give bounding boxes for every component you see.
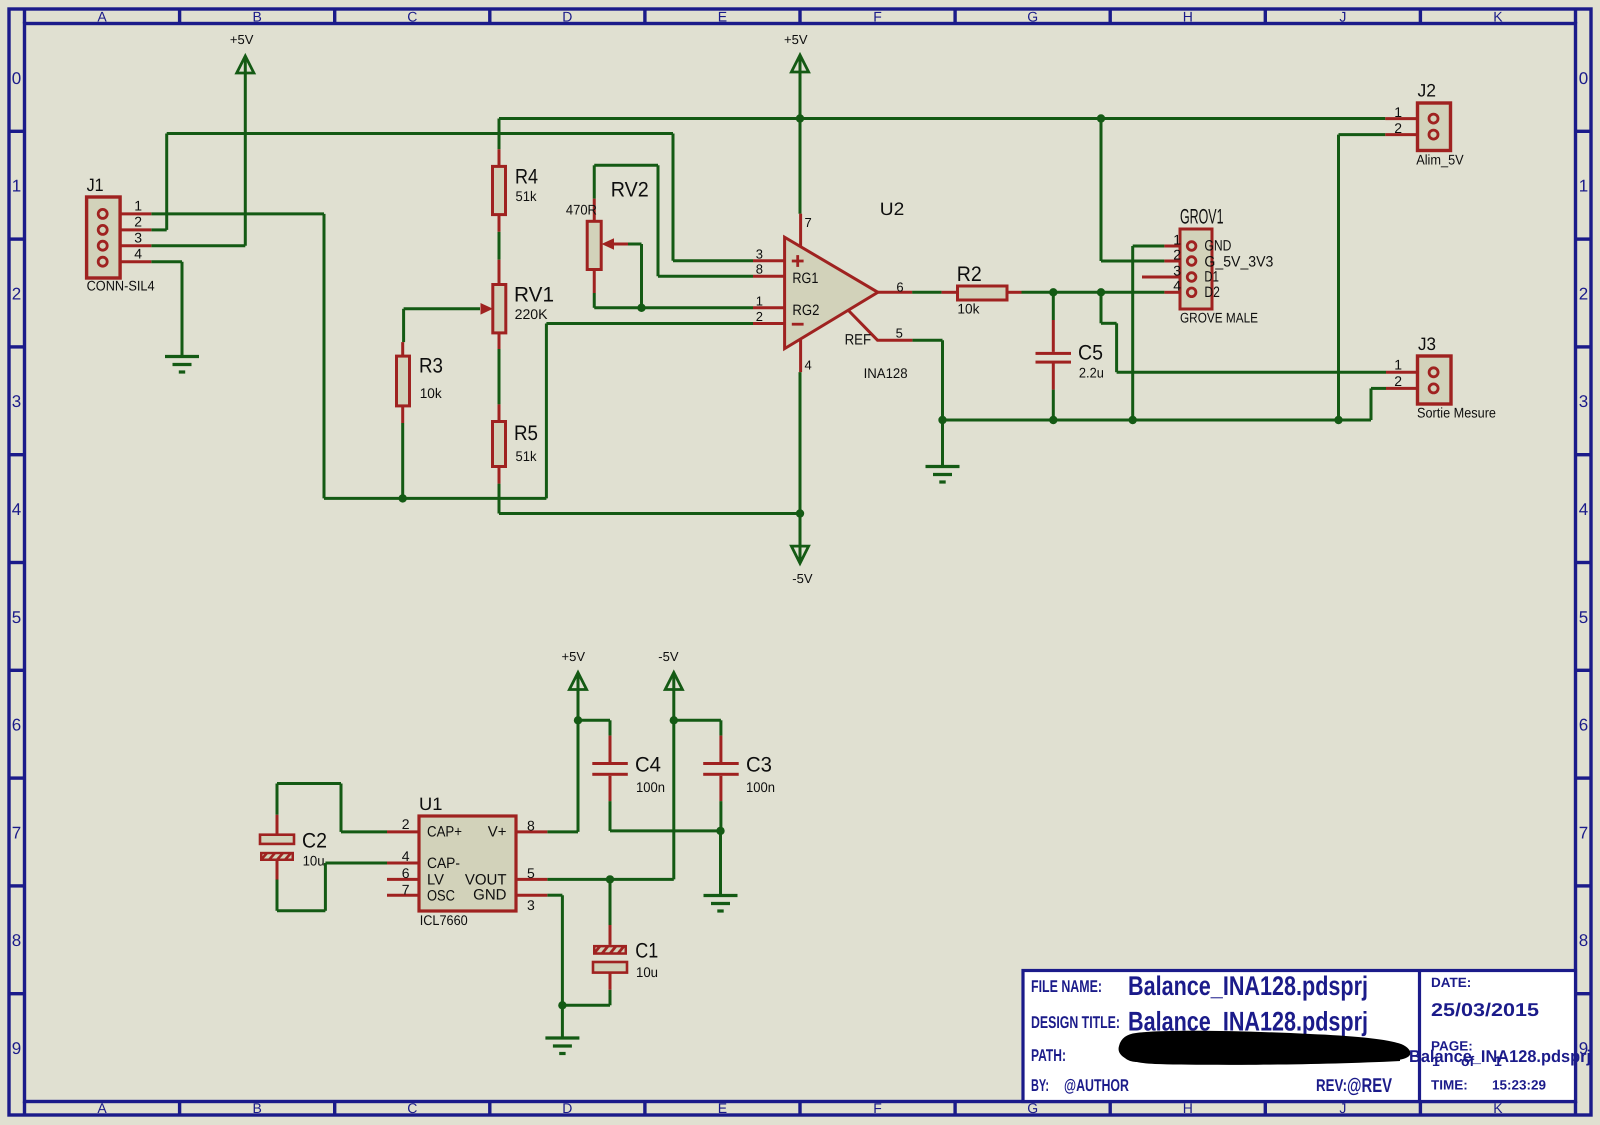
svg-text:C2: C2 bbox=[302, 830, 327, 853]
svg-text:3: 3 bbox=[527, 897, 535, 913]
svg-text:D: D bbox=[562, 9, 572, 25]
svg-text:2: 2 bbox=[134, 214, 142, 230]
svg-text:9: 9 bbox=[12, 1039, 21, 1058]
svg-text:470R: 470R bbox=[566, 202, 597, 218]
svg-text:RV1: RV1 bbox=[514, 284, 554, 307]
svg-text:DESIGN TITLE:: DESIGN TITLE: bbox=[1031, 1013, 1120, 1032]
svg-text:C3: C3 bbox=[746, 754, 772, 777]
svg-text:R4: R4 bbox=[515, 166, 538, 189]
svg-text:220K: 220K bbox=[515, 306, 549, 322]
svg-text:J2: J2 bbox=[1418, 81, 1437, 101]
svg-text:PATH:: PATH: bbox=[1031, 1046, 1066, 1065]
svg-text:3: 3 bbox=[1579, 392, 1588, 411]
svg-text:15:23:29: 15:23:29 bbox=[1492, 1078, 1546, 1093]
svg-text:DATE:: DATE: bbox=[1431, 975, 1471, 990]
svg-text:GND: GND bbox=[473, 887, 507, 904]
svg-text:51k: 51k bbox=[516, 448, 538, 464]
svg-text:6: 6 bbox=[12, 716, 21, 735]
svg-text:4: 4 bbox=[805, 358, 812, 373]
svg-text:7: 7 bbox=[12, 823, 21, 842]
svg-text:3: 3 bbox=[1173, 263, 1181, 279]
svg-text:8: 8 bbox=[527, 818, 535, 834]
svg-text:2.2u: 2.2u bbox=[1079, 365, 1104, 381]
svg-text:5: 5 bbox=[12, 608, 21, 627]
svg-text:FILE NAME:: FILE NAME: bbox=[1031, 977, 1102, 996]
svg-text:LV: LV bbox=[427, 872, 444, 889]
svg-text:A: A bbox=[97, 9, 107, 25]
svg-text:B: B bbox=[252, 9, 261, 25]
svg-text:E: E bbox=[718, 9, 727, 25]
svg-text:CONN-SIL4: CONN-SIL4 bbox=[87, 278, 155, 294]
svg-text:+5V: +5V bbox=[562, 649, 586, 664]
svg-text:D2: D2 bbox=[1204, 284, 1220, 301]
svg-text:RG1: RG1 bbox=[792, 270, 818, 287]
svg-text:1: 1 bbox=[134, 198, 142, 214]
svg-text:100n: 100n bbox=[746, 779, 775, 795]
svg-text:REV:: REV: bbox=[1316, 1076, 1347, 1095]
svg-text:Balance_INA128.pdsprj: Balance_INA128.pdsprj bbox=[1409, 1047, 1591, 1066]
svg-text:R3: R3 bbox=[419, 355, 443, 378]
svg-text:6: 6 bbox=[1579, 716, 1588, 735]
svg-text:F: F bbox=[873, 9, 882, 25]
svg-text:7: 7 bbox=[402, 882, 410, 898]
svg-text:ICL7660: ICL7660 bbox=[420, 912, 468, 928]
svg-text:Balance_INA128.pdsprj: Balance_INA128.pdsprj bbox=[1128, 971, 1368, 1001]
svg-text:E: E bbox=[718, 1100, 727, 1116]
svg-text:10k: 10k bbox=[957, 301, 980, 317]
svg-text:U2: U2 bbox=[880, 199, 905, 219]
svg-text:100n: 100n bbox=[636, 779, 665, 795]
svg-text:OSC: OSC bbox=[427, 888, 455, 905]
svg-text:D: D bbox=[562, 1100, 572, 1116]
svg-text:C1: C1 bbox=[635, 940, 658, 963]
svg-text:4: 4 bbox=[1579, 500, 1588, 519]
svg-text:C5: C5 bbox=[1078, 342, 1103, 365]
svg-text:2: 2 bbox=[1394, 373, 1402, 389]
svg-text:+5V: +5V bbox=[784, 32, 808, 47]
svg-text:5: 5 bbox=[1579, 608, 1588, 627]
svg-text:C: C bbox=[407, 1100, 417, 1116]
svg-text:1: 1 bbox=[12, 177, 21, 196]
svg-text:2: 2 bbox=[1394, 120, 1402, 136]
svg-text:2: 2 bbox=[1579, 284, 1588, 303]
svg-text:V+: V+ bbox=[488, 824, 507, 841]
svg-text:5: 5 bbox=[896, 326, 903, 341]
svg-text:J1: J1 bbox=[87, 175, 104, 195]
svg-text:5: 5 bbox=[527, 865, 535, 881]
svg-text:2: 2 bbox=[402, 816, 410, 832]
svg-text:GROVE MALE: GROVE MALE bbox=[1180, 310, 1258, 326]
svg-text:@AUTHOR: @AUTHOR bbox=[1064, 1076, 1129, 1095]
svg-text:D1: D1 bbox=[1204, 269, 1219, 286]
svg-text:-5V: -5V bbox=[792, 571, 813, 586]
svg-text:1: 1 bbox=[756, 294, 763, 309]
svg-text:2: 2 bbox=[1173, 247, 1181, 263]
svg-text:REF: REF bbox=[845, 332, 872, 349]
svg-text:TIME:: TIME: bbox=[1431, 1078, 1468, 1093]
svg-text:GND: GND bbox=[1204, 238, 1231, 255]
svg-text:8: 8 bbox=[1579, 931, 1588, 950]
svg-text:1: 1 bbox=[1173, 232, 1181, 248]
svg-text:U1: U1 bbox=[419, 794, 442, 814]
svg-text:51k: 51k bbox=[516, 188, 538, 204]
svg-text:B: B bbox=[252, 1100, 261, 1116]
svg-text:4: 4 bbox=[402, 848, 410, 864]
svg-text:C4: C4 bbox=[635, 754, 661, 777]
svg-text:3: 3 bbox=[134, 230, 142, 246]
svg-text:0: 0 bbox=[12, 69, 21, 88]
svg-text:7: 7 bbox=[1579, 823, 1588, 842]
svg-text:RV2: RV2 bbox=[611, 179, 649, 202]
svg-text:25/03/2015: 25/03/2015 bbox=[1431, 999, 1539, 1020]
svg-text:G: G bbox=[1027, 9, 1038, 25]
svg-text:J3: J3 bbox=[1418, 334, 1436, 354]
svg-text:R5: R5 bbox=[514, 422, 538, 445]
svg-text:4: 4 bbox=[12, 500, 21, 519]
svg-text:3: 3 bbox=[12, 392, 21, 411]
svg-text:6: 6 bbox=[896, 280, 903, 295]
svg-text:J: J bbox=[1339, 9, 1346, 25]
svg-text:RG2: RG2 bbox=[792, 302, 819, 319]
svg-text:2: 2 bbox=[756, 309, 763, 324]
svg-text:Alim_5V: Alim_5V bbox=[1416, 152, 1464, 168]
svg-text:10k: 10k bbox=[420, 385, 443, 401]
svg-text:8: 8 bbox=[12, 931, 21, 950]
svg-text:0: 0 bbox=[1579, 69, 1588, 88]
svg-text:1: 1 bbox=[1579, 177, 1588, 196]
svg-text:CAP+: CAP+ bbox=[427, 824, 462, 841]
svg-text:7: 7 bbox=[805, 215, 812, 230]
svg-text:8: 8 bbox=[756, 262, 763, 277]
svg-text:CAP-: CAP- bbox=[427, 855, 460, 872]
svg-text:F: F bbox=[873, 1100, 882, 1116]
svg-text:INA128: INA128 bbox=[864, 365, 908, 381]
svg-text:GROV1: GROV1 bbox=[1180, 206, 1224, 229]
svg-text:-5V: -5V bbox=[658, 649, 679, 664]
svg-text:3: 3 bbox=[756, 247, 763, 262]
svg-text:2: 2 bbox=[12, 284, 21, 303]
svg-text:R2: R2 bbox=[957, 263, 982, 286]
svg-text:K: K bbox=[1493, 9, 1503, 25]
svg-text:C: C bbox=[407, 9, 417, 25]
svg-text:Sortie Mesure: Sortie Mesure bbox=[1417, 405, 1496, 421]
svg-text:10u: 10u bbox=[636, 964, 658, 980]
svg-text:A: A bbox=[97, 1100, 107, 1116]
svg-text:4: 4 bbox=[134, 246, 142, 262]
svg-text:H: H bbox=[1183, 9, 1193, 25]
svg-text:10u: 10u bbox=[303, 853, 325, 869]
svg-text:1: 1 bbox=[1394, 104, 1402, 120]
svg-text:4: 4 bbox=[1173, 278, 1181, 294]
svg-text:+5V: +5V bbox=[230, 32, 254, 47]
svg-text:1: 1 bbox=[1394, 357, 1402, 373]
svg-text:BY:: BY: bbox=[1031, 1076, 1049, 1095]
svg-text:@REV: @REV bbox=[1347, 1075, 1392, 1097]
svg-text:6: 6 bbox=[402, 865, 410, 881]
